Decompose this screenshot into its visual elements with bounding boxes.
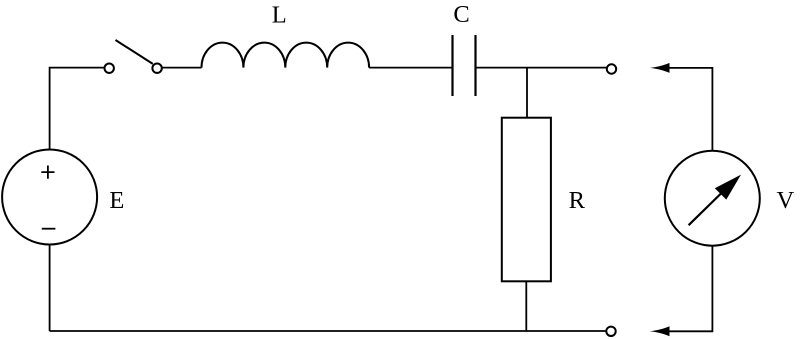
svg-text:E: E (109, 187, 124, 214)
svg-text:R: R (569, 187, 586, 214)
svg-text:C: C (453, 1, 469, 28)
svg-text:V: V (776, 187, 794, 214)
svg-text:L: L (272, 1, 287, 28)
